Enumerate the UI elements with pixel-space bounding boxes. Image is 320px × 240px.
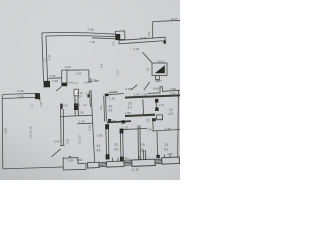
svg-text:4.59: 4.59 (170, 87, 176, 91)
svg-text:19: 19 (141, 143, 145, 147)
svg-text:1.58: 1.58 (67, 158, 73, 162)
dark pier corridor wall top (60, 104, 62, 109)
pier box at balcony/bar junction (115, 31, 125, 40)
small corner segment above room10 (109, 91, 118, 94)
svg-text:0.45: 0.45 (84, 82, 89, 85)
window W3 (132, 159, 155, 166)
svg-text:2.11: 2.11 (157, 117, 163, 121)
svg-text:3.36: 3.36 (76, 158, 82, 162)
dark pier right top a (155, 99, 158, 103)
svg-text:1.10: 1.10 (116, 70, 120, 76)
wall hatch between W2 W3 (124, 161, 132, 166)
dark fill corridor column bottom (62, 83, 67, 87)
svg-text:1.5: 1.5 (43, 58, 47, 62)
wall 2.45 segment (152, 130, 180, 132)
svg-text:4.92: 4.92 (133, 47, 139, 51)
north symbol tab below (156, 76, 160, 80)
diagonal leader to symbol (144, 82, 150, 90)
dark pier annex top right (35, 93, 40, 99)
right step vertical wall (152, 22, 154, 39)
wall 1.87 vertical (142, 99, 145, 115)
svg-text:1.2: 1.2 (30, 103, 34, 107)
wall hatch between W3 W4 (155, 159, 162, 164)
dark pier room13 bottom (156, 155, 159, 158)
wall below room10 line b (107, 124, 110, 159)
svg-text:0.9: 0.9 (86, 91, 90, 95)
svg-text:4.1: 4.1 (128, 105, 133, 109)
svg-text:2.40: 2.40 (170, 91, 176, 95)
svg-text:1.89: 1.89 (97, 133, 103, 137)
room22 right wall line a (119, 129, 122, 161)
svg-text:0.51: 0.51 (39, 101, 43, 107)
wall 1.13 segment (121, 128, 147, 129)
middle wall second line (89, 91, 92, 108)
svg-text:0.9: 0.9 (83, 103, 87, 107)
svg-text:3.97: 3.97 (48, 54, 52, 60)
svg-text:5.96: 5.96 (125, 158, 131, 162)
corridor double wall right line (62, 109, 65, 146)
north symbol box (152, 63, 167, 76)
svg-text:6.28: 6.28 (18, 89, 24, 93)
svg-text:0.9: 0.9 (112, 41, 116, 45)
corridor double wall left line (60, 109, 63, 146)
svg-text:18 21.60: 18 21.60 (29, 126, 33, 138)
svg-text:1.26: 1.26 (79, 120, 85, 124)
left annex top wall inner (3, 97, 37, 98)
corridor top wall right segment (67, 69, 89, 71)
dark pier at bar junction (116, 34, 120, 40)
room22 right wall line b (122, 129, 125, 161)
svg-text:1.80: 1.80 (65, 138, 69, 144)
wall right small top vertical (155, 99, 158, 111)
pier outline below column (74, 89, 79, 96)
room10 top wall (105, 94, 124, 95)
svg-text:11.39: 11.39 (132, 168, 140, 172)
svg-text:2.91: 2.91 (18, 95, 24, 99)
dark pier wall v11 bottom (106, 154, 110, 159)
svg-text:14.61: 14.61 (158, 59, 165, 63)
corridor door swing small (56, 87, 61, 91)
dark pier wall v12 bottom (120, 157, 124, 162)
short tick line right of jamb (94, 80, 98, 82)
svg-text:4.1: 4.1 (164, 148, 169, 152)
svg-text:1.95: 1.95 (109, 96, 115, 100)
dark pier room11 top (152, 118, 156, 121)
svg-text:5.46: 5.46 (110, 119, 116, 123)
diagonal leader left (131, 85, 137, 90)
svg-text:0.45: 0.45 (63, 104, 69, 108)
corridor top wall left segment (48, 77, 62, 80)
mid wall left band (107, 120, 131, 123)
svg-text:2.28: 2.28 (78, 111, 84, 115)
left annex top wall outer (3, 93, 37, 94)
top wall bar of main block (119, 37, 165, 44)
balcony left wall outer (42, 33, 44, 82)
svg-text:0.45: 0.45 (52, 79, 58, 83)
svg-text:2.45: 2.45 (165, 127, 171, 131)
svg-text:1.4: 1.4 (146, 67, 150, 71)
balcony left wall inner (46, 36, 48, 81)
tiny dimension texts (18, 17, 178, 172)
big room bottom wall (3, 167, 63, 169)
room19 left wall line a (137, 125, 140, 160)
svg-text:4.28: 4.28 (140, 36, 146, 40)
svg-text:8: 8 (142, 148, 144, 152)
svg-text:3.88: 3.88 (126, 87, 132, 91)
svg-text:4.5: 4.5 (96, 149, 101, 153)
svg-text:1.13: 1.13 (159, 103, 165, 107)
corridor column outline (62, 70, 67, 86)
corridor second lower wall segment (77, 122, 93, 125)
svg-text:2.07: 2.07 (77, 94, 83, 98)
middle wall top stub (90, 78, 92, 83)
svg-text:1.2: 1.2 (74, 82, 78, 85)
paper background (0, 0, 180, 180)
dark pier room10 bottom (108, 119, 111, 122)
top stub wall 0.51 (39, 93, 41, 101)
svg-text:4.10: 4.10 (88, 125, 92, 131)
left exterior wall (1, 94, 4, 168)
svg-text:1.13: 1.13 (122, 125, 128, 129)
svg-text:3.90: 3.90 (49, 74, 55, 78)
window W4 (162, 157, 180, 164)
svg-text:1.9: 1.9 (73, 99, 77, 103)
room19 left wall line b (139, 125, 142, 160)
svg-text:15 11.0: 15 11.0 (78, 134, 82, 144)
room number labels (96, 101, 173, 152)
window tick marks (113, 154, 171, 161)
svg-text:1.62: 1.62 (134, 92, 140, 96)
corridor lower wall segment (60, 115, 93, 116)
svg-text:1.26: 1.26 (75, 71, 81, 75)
svg-text:0.95: 0.95 (147, 127, 153, 131)
svg-text:2.01: 2.01 (75, 103, 81, 107)
corridor door jamb (89, 70, 93, 83)
dark pier corridor column lower (74, 103, 78, 110)
svg-text:8.68: 8.68 (153, 86, 159, 90)
svg-text:4.6: 4.6 (108, 109, 113, 113)
corridor column line a (74, 96, 76, 116)
balcony top wall outer line (42, 33, 116, 35)
tick marks below tab (156, 80, 159, 82)
long main wall thick band (125, 94, 180, 98)
svg-text:11: 11 (146, 119, 150, 123)
door swing diagonal (52, 149, 61, 157)
svg-text:6.80: 6.80 (4, 128, 8, 134)
corridor wall end cap (60, 145, 64, 147)
balcony third line near pier (92, 38, 116, 39)
svg-text:0.45: 0.45 (54, 139, 60, 143)
dark pier mid wall left end (122, 120, 126, 123)
room10 left wall line b (105, 96, 108, 122)
svg-text:4.43: 4.43 (65, 65, 71, 69)
svg-text:22: 22 (115, 143, 119, 147)
svg-text:1.87: 1.87 (142, 92, 148, 96)
dark step at bar right end (164, 41, 166, 44)
svg-text:4.0: 4.0 (114, 148, 119, 152)
mid wall right thick band (125, 114, 155, 118)
north symbol triangle (155, 65, 165, 73)
svg-text:3.9: 3.9 (99, 105, 103, 109)
svg-text:1.27: 1.27 (157, 79, 163, 83)
diagonal leader top (143, 52, 153, 63)
room10 left wall line a (103, 96, 106, 122)
svg-text:1.85: 1.85 (125, 111, 131, 115)
wall room13 left vertical (156, 131, 159, 157)
dark pier room10 top left (105, 94, 109, 97)
wall below room10 line a (105, 124, 108, 159)
dark pier right top b (155, 107, 158, 111)
dark pier wall v11 top (105, 124, 109, 129)
svg-text:6.68: 6.68 (88, 27, 94, 31)
right section north wall with notch (148, 87, 180, 94)
right exterior wall (177, 90, 180, 158)
window W1 (88, 162, 100, 168)
rotated small texts (4, 31, 152, 144)
wall hatch between W1 W2 (99, 162, 107, 167)
wall room11 vertical (152, 119, 155, 131)
svg-text:4.87: 4.87 (167, 152, 173, 156)
dark pier middle wall top (87, 95, 89, 98)
svg-text:0.30: 0.30 (147, 31, 151, 37)
top right exterior wall (153, 20, 180, 21)
corridor column line b (77, 96, 79, 116)
dark pier balcony left bottom (44, 81, 51, 88)
small shaft box (157, 115, 163, 120)
svg-text:13: 13 (165, 143, 169, 147)
porch step outline (63, 156, 86, 170)
svg-text:7.28: 7.28 (89, 40, 95, 44)
svg-text:4.0: 4.0 (169, 112, 174, 116)
window W2 (107, 161, 125, 167)
dark pier wall v12 top (120, 129, 124, 134)
svg-text:11.07: 11.07 (171, 17, 178, 21)
svg-text:24: 24 (97, 144, 101, 148)
svg-text:0.9: 0.9 (92, 79, 96, 82)
svg-text:0.9: 0.9 (100, 63, 104, 68)
balcony top wall inner line (46, 36, 116, 37)
window sill wall vertical (143, 150, 145, 160)
middle wall (tilting, single) (91, 90, 95, 162)
